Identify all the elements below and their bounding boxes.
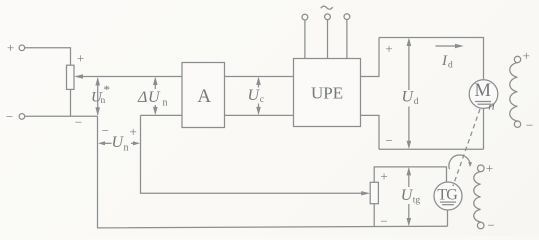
svg-text:U: U bbox=[248, 87, 261, 104]
arrow Id (armature current) bbox=[436, 44, 464, 71]
svg-text:+: + bbox=[523, 48, 530, 63]
svg-text:n: n bbox=[101, 96, 106, 106]
wire from minus terminal to node at x97 bbox=[25, 115, 98, 117]
svg-text:−: − bbox=[6, 109, 13, 124]
svg-text:I: I bbox=[441, 53, 448, 69]
wire outer feedback: node x97 down and along bottom bbox=[98, 116, 448, 228]
wire from plus terminal to potentiometer RP1 top bbox=[25, 48, 71, 65]
svg-text:tg: tg bbox=[413, 196, 421, 206]
wire bottom input into amplifier A bbox=[141, 114, 183, 116]
svg-text:−: − bbox=[75, 115, 82, 130]
arrow Un* (given speed reference voltage) bbox=[91, 77, 110, 116]
wire top rail to motor bbox=[379, 38, 484, 80]
svg-text:−: − bbox=[487, 218, 494, 233]
svg-text:TG: TG bbox=[437, 186, 458, 203]
svg-text:d: d bbox=[414, 97, 419, 107]
TG field winding terminals and coil bbox=[474, 161, 495, 233]
svg-text:*: * bbox=[104, 82, 111, 97]
svg-text:−: − bbox=[526, 118, 533, 133]
wire RP2 bottom lead bbox=[373, 204, 375, 227]
arrow Uc (control voltage) bbox=[248, 77, 265, 116]
power converter block UPE bbox=[294, 59, 361, 127]
svg-text:c: c bbox=[260, 95, 264, 105]
wire RP1 wiper to amplifier A (with wiper arrow) bbox=[74, 74, 182, 78]
wire UPE bottom output down to bottom armature rail bbox=[361, 115, 380, 149]
wire A to UPE bottom bbox=[225, 114, 294, 116]
svg-text:U: U bbox=[148, 89, 161, 106]
motor field winding terminals and coil bbox=[510, 48, 533, 133]
svg-text:+: + bbox=[486, 161, 493, 176]
svg-text:n: n bbox=[488, 98, 495, 113]
svg-text:A: A bbox=[197, 86, 211, 107]
wire A to UPE top bbox=[225, 76, 294, 78]
svg-text:U: U bbox=[402, 89, 415, 106]
wire TG bottom lead bbox=[447, 210, 449, 226]
svg-text:Δ: Δ bbox=[137, 89, 147, 106]
op-amp block A (amplifier) bbox=[182, 63, 225, 128]
svg-text:−: − bbox=[380, 214, 387, 229]
wire motor bottom lead bbox=[483, 108, 485, 149]
dashed mechanical coupling motor to TG bbox=[453, 109, 480, 186]
svg-text:−: − bbox=[102, 123, 109, 138]
arrow Utg (tachogenerator voltage) bbox=[401, 167, 421, 227]
terminal minus (left input) bbox=[6, 109, 25, 124]
tachogenerator TG bbox=[434, 182, 462, 210]
wire RP1 bottom lead bbox=[70, 89, 72, 116]
wire TG box top bbox=[374, 167, 446, 182]
svg-text:n: n bbox=[163, 97, 168, 108]
arrow Ud (rectified voltage) with plus minus bbox=[385, 38, 418, 150]
wire bottom armature rail to motor bbox=[379, 148, 484, 150]
rotation arrow (direction of n) bbox=[449, 155, 472, 169]
motor M bbox=[469, 80, 498, 109]
svg-text:n: n bbox=[124, 143, 129, 154]
svg-text:+: + bbox=[77, 51, 84, 66]
arrow Un (feedback voltage) with labels bbox=[98, 123, 140, 154]
wire UPE top output up to armature top rail bbox=[361, 38, 380, 77]
terminal plus (left input) bbox=[7, 40, 25, 55]
svg-text:UPE: UPE bbox=[311, 83, 343, 102]
AC supply terminals above UPE bbox=[302, 6, 350, 58]
svg-text:+: + bbox=[380, 169, 387, 184]
svg-text:+: + bbox=[385, 41, 392, 56]
svg-text:+: + bbox=[7, 40, 14, 55]
arrow delta-Un (error voltage) bbox=[137, 77, 168, 116]
svg-text:+: + bbox=[130, 124, 137, 139]
svg-text:d: d bbox=[448, 61, 453, 71]
potentiometer RP2 (feedback pot) bbox=[370, 182, 378, 203]
potentiometer RP1 bbox=[67, 65, 75, 89]
svg-text:−: − bbox=[385, 133, 392, 148]
wire inner feedback: from bottom input node down to TG potentiometer wiper bbox=[141, 115, 371, 195]
